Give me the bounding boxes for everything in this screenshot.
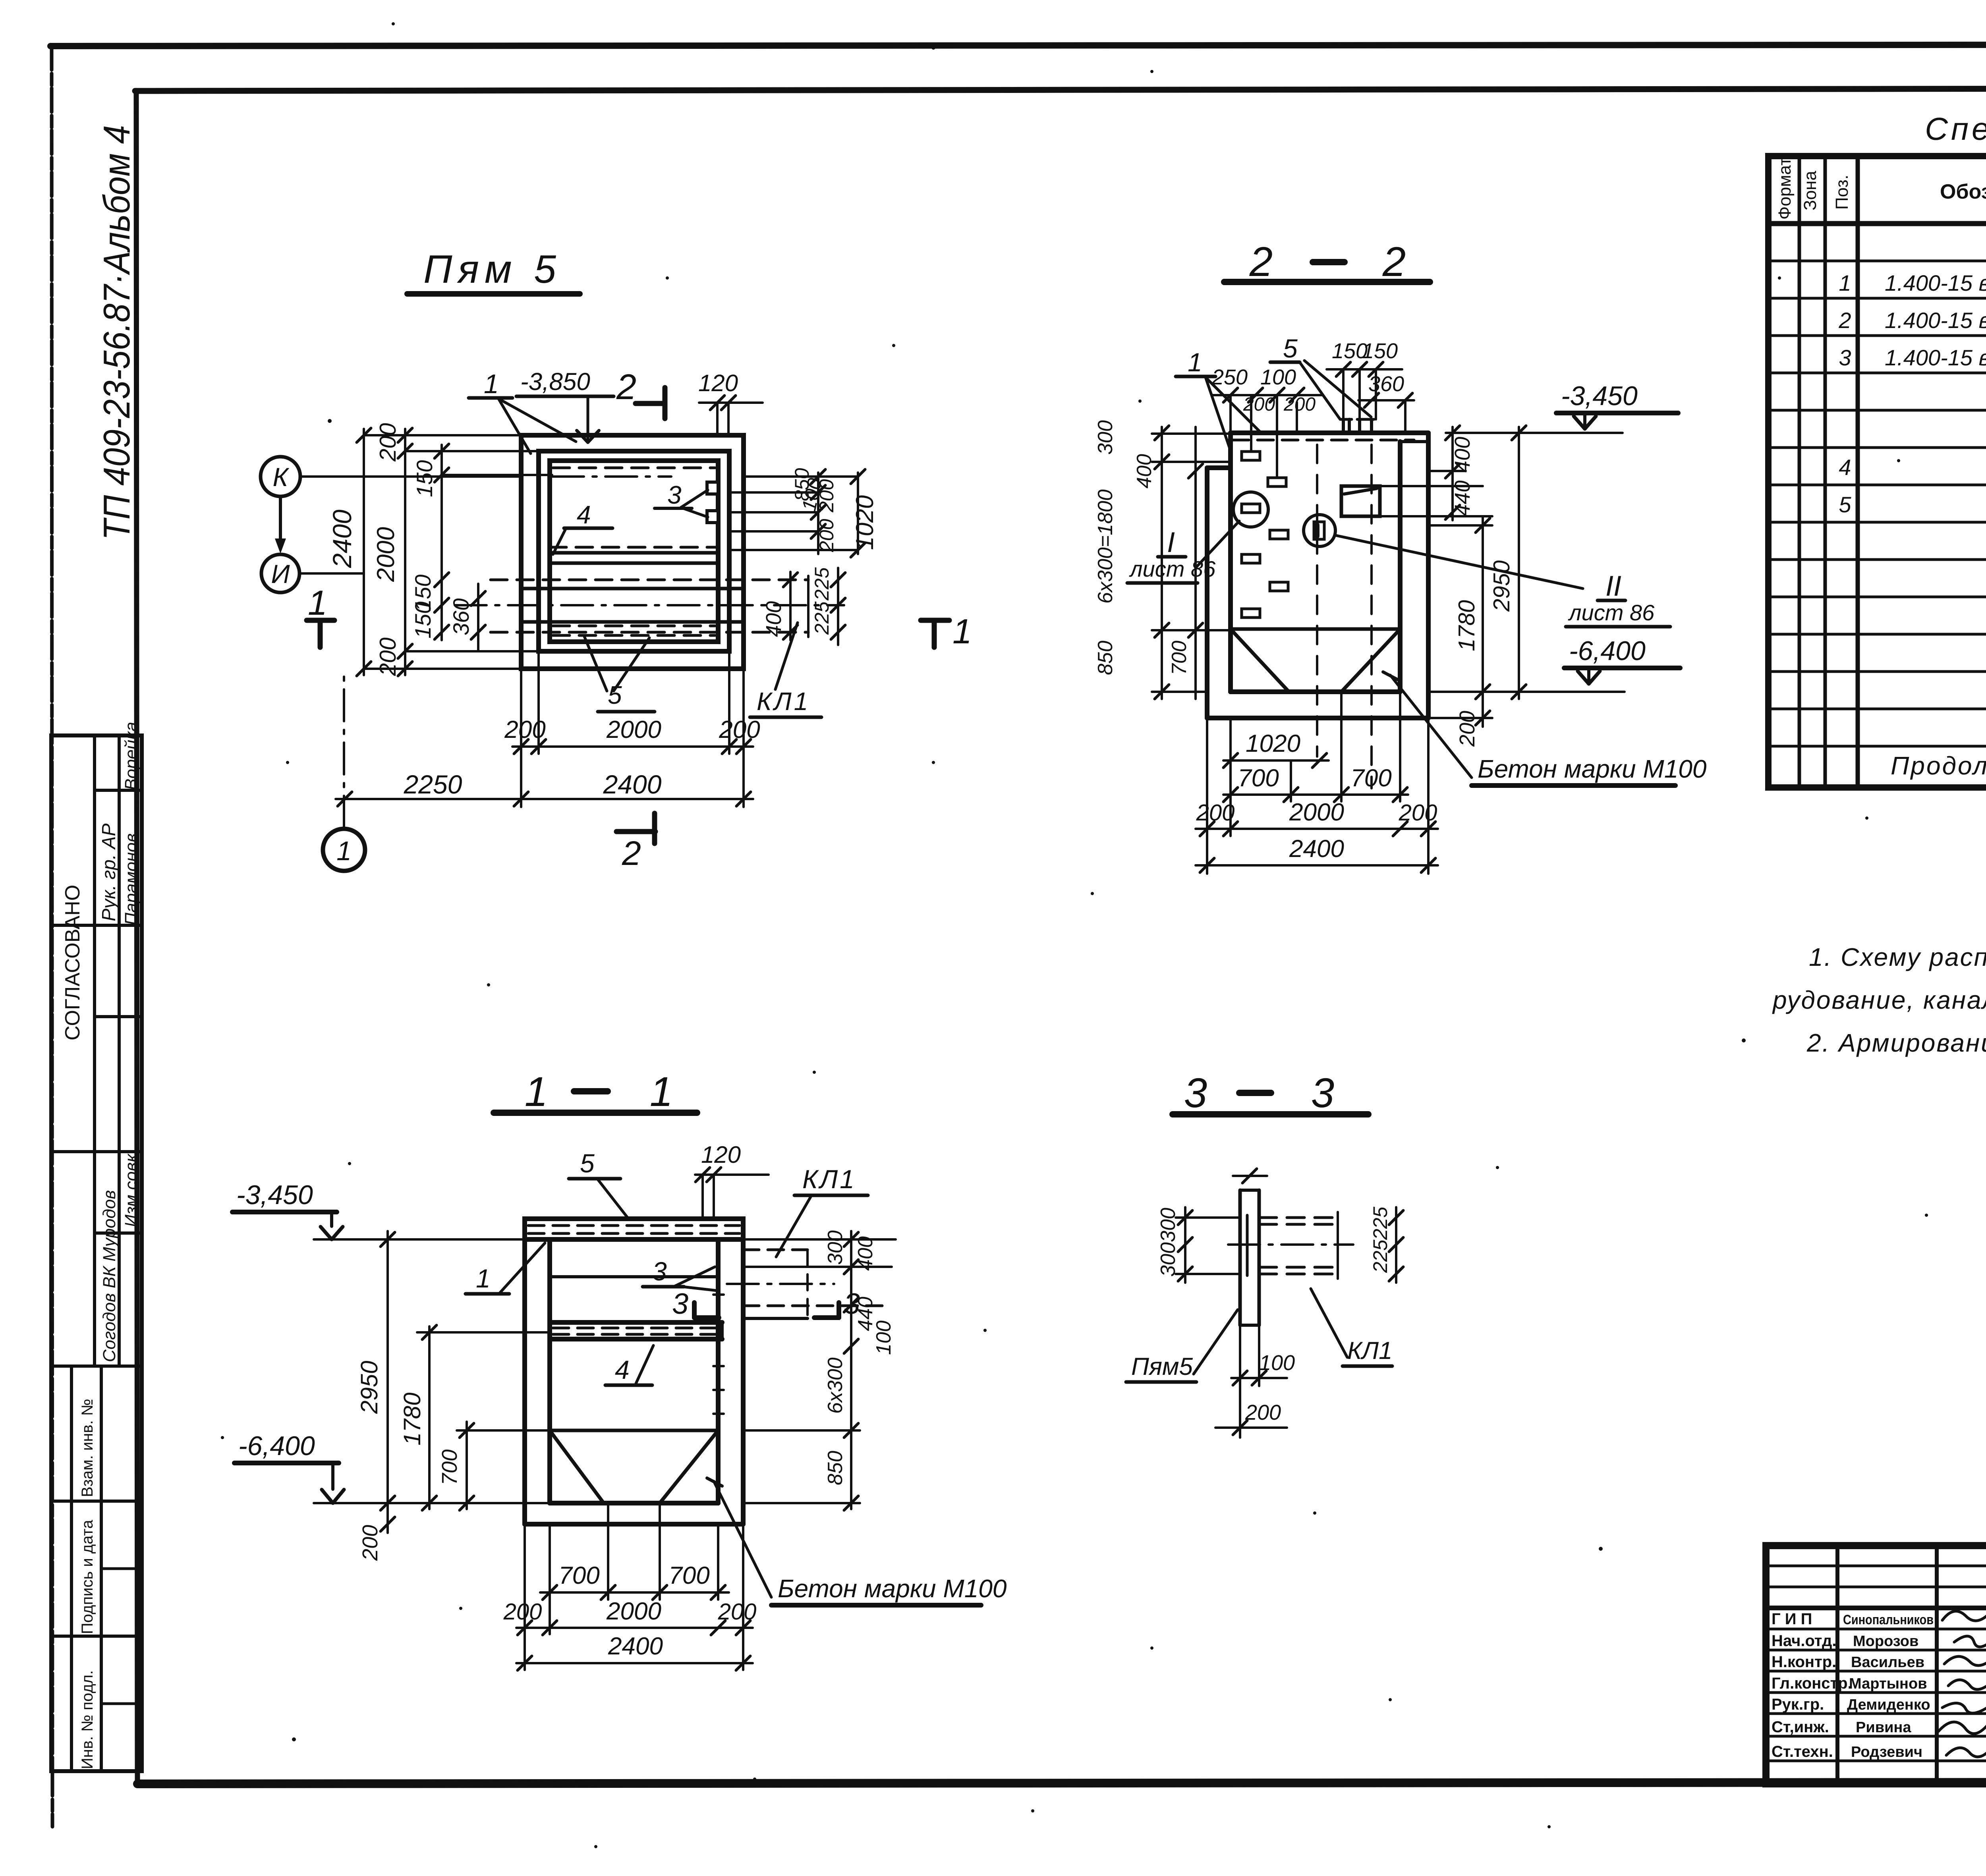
svg-text:2400: 2400 bbox=[327, 510, 357, 568]
bottom dims 700 700 bbox=[549, 1524, 551, 1634]
svg-text:3: 3 bbox=[1184, 1070, 1207, 1116]
svg-text:200: 200 bbox=[815, 519, 838, 552]
svg-text:2. Армирование приямка Пям 5: 2. Армирование приямка Пям 5 см. на лист… bbox=[1806, 1029, 1986, 1057]
svg-text:100: 100 bbox=[1260, 365, 1296, 389]
bottom dims 100 200 bbox=[1239, 1325, 1241, 1438]
svg-text:1: 1 bbox=[1188, 347, 1202, 377]
svg-text:200: 200 bbox=[504, 716, 545, 743]
svg-text:300: 300 bbox=[824, 1230, 847, 1265]
svg-text:Васильев: Васильев bbox=[1851, 1654, 1924, 1671]
svg-text:Пям5: Пям5 bbox=[1131, 1353, 1193, 1380]
svg-text:3: 3 bbox=[652, 1256, 667, 1286]
svg-text:2: 2 bbox=[1249, 239, 1273, 285]
svg-text:3: 3 bbox=[667, 481, 682, 509]
embedded plates zigzag bbox=[1242, 452, 1260, 460]
svg-text:СОГЛАСОВАНО: СОГЛАСОВАНО bbox=[61, 885, 84, 1040]
svg-text:400: 400 bbox=[854, 1236, 877, 1271]
svg-text:1: 1 bbox=[1839, 270, 1851, 295]
svg-text:1780: 1780 bbox=[1454, 600, 1480, 651]
right wall bbox=[741, 1239, 746, 1524]
svg-text:Родзевич: Родзевич bbox=[1851, 1744, 1922, 1760]
axis K circle bbox=[261, 457, 300, 496]
svg-text:225: 225 bbox=[1369, 1206, 1391, 1240]
svg-text:200: 200 bbox=[1245, 1401, 1281, 1424]
svg-text:120: 120 bbox=[701, 1141, 741, 1168]
svg-text:1: 1 bbox=[336, 836, 352, 866]
svg-text:440: 440 bbox=[1451, 481, 1474, 516]
bottom dim 2400 bbox=[516, 1662, 753, 1664]
svg-text:3: 3 bbox=[1311, 1070, 1334, 1116]
channel bottom solid bbox=[521, 620, 744, 624]
main horizontal lines bbox=[1766, 1606, 1986, 1610]
svg-text:700: 700 bbox=[1350, 764, 1391, 792]
dim ticks left bbox=[357, 428, 371, 442]
svg-text:Инв. № подл.: Инв. № подл. bbox=[79, 1670, 96, 1769]
svg-text:4: 4 bbox=[1839, 455, 1851, 480]
svg-text:-3,450: -3,450 bbox=[236, 1180, 313, 1210]
svg-text:Парамонов: Парамонов bbox=[122, 833, 141, 925]
sheet outer left border line bbox=[52, 46, 52, 1827]
svg-text:Ст.техн.: Ст.техн. bbox=[1772, 1743, 1833, 1760]
left table verticals bbox=[1835, 1546, 1839, 1784]
svg-text:I: I bbox=[1167, 527, 1175, 558]
svg-text:1.400-15 в.1 810: 1.400-15 в.1 810 bbox=[1885, 345, 1986, 370]
svg-text:2950: 2950 bbox=[356, 1361, 383, 1414]
svg-text:1: 1 bbox=[476, 1264, 491, 1293]
svg-text:2000: 2000 bbox=[372, 527, 400, 582]
left dim 2950/200 bbox=[386, 1231, 389, 1533]
svg-text:1: 1 bbox=[308, 583, 327, 622]
svg-text:850: 850 bbox=[824, 1451, 847, 1485]
right dims 300 400 440 100 bbox=[743, 1238, 896, 1241]
pit wall outer rect bbox=[539, 451, 729, 651]
PLAN VIEW PJAM5 bbox=[261, 247, 972, 872]
embedded plates item 3 bbox=[707, 482, 718, 494]
svg-text:Демиденко: Демиденко bbox=[1847, 1697, 1930, 1713]
svg-text:700: 700 bbox=[1168, 641, 1191, 675]
SECTION 1-1 bbox=[232, 1069, 1007, 1670]
svg-text:200: 200 bbox=[1399, 800, 1437, 826]
svg-text:700: 700 bbox=[438, 1449, 462, 1485]
row lines bbox=[1768, 260, 1986, 262]
svg-text:400: 400 bbox=[1451, 437, 1474, 473]
sheet outer top border line bbox=[50, 44, 1986, 46]
svg-text:Г И П: Г И П bbox=[1772, 1610, 1812, 1628]
top slab line bbox=[1231, 430, 1428, 435]
LEFT MARGIN bbox=[51, 125, 142, 1771]
bottom dim row 1 bbox=[512, 745, 753, 748]
svg-text:5: 5 bbox=[608, 681, 622, 709]
svg-text:360: 360 bbox=[448, 598, 473, 635]
svg-text:-3,450: -3,450 bbox=[1561, 381, 1638, 411]
svg-text:3: 3 bbox=[1839, 345, 1851, 370]
left inner wall bbox=[1228, 433, 1233, 692]
pit wall inner rect bbox=[550, 461, 718, 642]
cavity bottom bbox=[1231, 689, 1400, 694]
svg-text:Синопальников: Синопальников bbox=[1843, 1612, 1934, 1627]
svg-text:200: 200 bbox=[1283, 394, 1316, 415]
svg-text:6х300: 6х300 bbox=[824, 1357, 847, 1414]
svg-text:360: 360 bbox=[1368, 372, 1404, 396]
channel right end tick bbox=[807, 576, 809, 637]
axis circle 1 bottom bbox=[323, 829, 365, 871]
dim extension horizontals bbox=[364, 434, 521, 436]
svg-text:1780: 1780 bbox=[399, 1393, 425, 1446]
svg-text:1: 1 bbox=[525, 1069, 548, 1115]
svg-text:700: 700 bbox=[668, 1562, 709, 1589]
left outer wall bbox=[1205, 468, 1209, 718]
right inner wall bbox=[1398, 442, 1403, 692]
detail circle II with plate bbox=[1304, 515, 1335, 546]
right dim chain 400/440 bbox=[1451, 427, 1454, 520]
svg-text:лист 86: лист 86 bbox=[1568, 600, 1655, 625]
svg-text:1.400-15 в.1 120: 1.400-15 в.1 120 bbox=[1885, 308, 1986, 333]
svg-text:4: 4 bbox=[615, 1355, 630, 1384]
right dim 2950 bbox=[1518, 427, 1520, 699]
svg-text:150: 150 bbox=[412, 460, 437, 497]
svg-text:2: 2 bbox=[616, 367, 636, 407]
svg-text:5: 5 bbox=[1283, 334, 1298, 363]
SECTION 3-3 bbox=[1126, 1070, 1403, 1438]
svg-text:Рук. гр. АР: Рук. гр. АР bbox=[99, 824, 120, 921]
svg-text:5: 5 bbox=[1839, 492, 1851, 517]
svg-text:-6,400: -6,400 bbox=[238, 1431, 315, 1461]
inner dashed top line bbox=[553, 467, 715, 469]
svg-text:Продолжение см. на лис: Продолжение см. на листе 85 bbox=[1891, 751, 1986, 780]
svg-text:150: 150 bbox=[410, 602, 435, 639]
svg-text:Согодов ВК Муродов: Согодов ВК Муродов bbox=[100, 1190, 119, 1362]
svg-text:-3,850: -3,850 bbox=[520, 368, 590, 396]
column lines bbox=[1798, 156, 1801, 787]
svg-text:Взам. инв. №: Взам. инв. № bbox=[79, 1399, 96, 1497]
svg-text:Изм.совк.: Изм.совк. bbox=[122, 1149, 141, 1227]
axis I circle bbox=[261, 554, 299, 593]
svg-text:1020: 1020 bbox=[851, 495, 879, 550]
svg-text:Пям 5: Пям 5 bbox=[423, 247, 562, 291]
SECTION 2-2 bbox=[1094, 239, 1707, 874]
channel dashed bottom bbox=[491, 631, 808, 634]
svg-text:Подпись и дата: Подпись и дата bbox=[79, 1520, 96, 1634]
funnel bbox=[550, 1429, 718, 1432]
level line -3450 bbox=[314, 1238, 525, 1241]
svg-text:КЛ1: КЛ1 bbox=[1347, 1337, 1393, 1365]
svg-text:200: 200 bbox=[815, 479, 838, 513]
svg-text:6х300=1800: 6х300=1800 bbox=[1094, 489, 1117, 604]
svg-text:Гл.констр.: Гл.констр. bbox=[1772, 1675, 1852, 1692]
svg-text:Ст,инж.: Ст,инж. bbox=[1772, 1718, 1829, 1736]
svg-text:200: 200 bbox=[358, 1525, 382, 1561]
axis K line bbox=[300, 475, 521, 478]
left dim 700 bbox=[466, 1422, 468, 1509]
svg-text:700: 700 bbox=[558, 1562, 599, 1589]
svg-text:850: 850 bbox=[1094, 641, 1117, 675]
left wall bbox=[522, 1239, 527, 1524]
svg-text:3: 3 bbox=[844, 1287, 860, 1320]
NOTES bbox=[1772, 943, 1986, 1057]
svg-text:2400: 2400 bbox=[603, 770, 662, 799]
svg-text:400: 400 bbox=[762, 601, 786, 637]
left dim 1780 bbox=[428, 1326, 431, 1509]
TITLE BLOCK bbox=[1766, 1546, 1986, 1813]
inner drawing frame left line bbox=[136, 91, 137, 1784]
platform edge dashed bbox=[550, 546, 718, 549]
left dims 300 300 bbox=[1184, 1207, 1186, 1283]
svg-text:Формат: Формат bbox=[1775, 158, 1795, 220]
inner vertical dashed lines bbox=[1316, 445, 1318, 757]
svg-text:100: 100 bbox=[872, 1320, 895, 1355]
svg-text:100: 100 bbox=[1259, 1351, 1295, 1375]
channel dashed pairs bbox=[1259, 1216, 1338, 1219]
svg-text:2950: 2950 bbox=[1489, 560, 1515, 612]
svg-text:2400: 2400 bbox=[1289, 835, 1344, 863]
svg-text:2: 2 bbox=[1838, 308, 1851, 333]
svg-text:2: 2 bbox=[1382, 239, 1406, 285]
svg-text:3: 3 bbox=[672, 1287, 688, 1320]
bottom dims 200 2000 200 bbox=[524, 1524, 526, 1670]
top dims bbox=[1211, 394, 1323, 396]
inner drawing frame bottom line bbox=[137, 1782, 1986, 1784]
svg-text:120: 120 bbox=[698, 370, 738, 396]
left dim chain bbox=[1161, 427, 1163, 699]
svg-text:Спецификация к Пям 5: Спецификация к Пям 5 bbox=[1925, 111, 1986, 147]
svg-text:Мартынов: Мартынов bbox=[1849, 1675, 1927, 1692]
svg-text:2: 2 bbox=[622, 834, 641, 872]
floor bottom bbox=[1207, 716, 1428, 720]
svg-text:225: 225 bbox=[811, 601, 833, 635]
svg-text:Зона: Зона bbox=[1801, 171, 1820, 210]
funnel bbox=[1231, 627, 1400, 631]
right dims 225 225 bbox=[1395, 1207, 1397, 1283]
svg-text:200: 200 bbox=[503, 1599, 542, 1625]
svg-text:300: 300 bbox=[1157, 1208, 1180, 1242]
detail circle I bbox=[1233, 492, 1268, 527]
svg-text:КЛ1: КЛ1 bbox=[757, 687, 810, 716]
svg-text:1020: 1020 bbox=[1246, 730, 1300, 757]
channel KL1 dashed top bbox=[491, 579, 808, 581]
svg-text:2400: 2400 bbox=[608, 1633, 663, 1660]
window opening bbox=[1341, 486, 1380, 516]
svg-text:200: 200 bbox=[719, 716, 760, 743]
section mark 2 bottom bbox=[616, 829, 655, 834]
svg-text:Бетон марки М100: Бетон марки М100 bbox=[1478, 755, 1707, 783]
svg-text:Рук.гр.: Рук.гр. bbox=[1772, 1696, 1824, 1713]
top slab bbox=[525, 1219, 743, 1239]
svg-text:2000: 2000 bbox=[1289, 799, 1344, 826]
svg-text:400: 400 bbox=[1133, 454, 1156, 488]
floor bbox=[550, 1501, 718, 1505]
svg-text:200: 200 bbox=[1243, 394, 1275, 415]
stamp column vertical divider 2 bbox=[118, 735, 121, 1366]
right outer wall bbox=[1426, 433, 1431, 718]
svg-text:1.400-15 в.1 550-03: 1.400-15 в.1 550-03 bbox=[1885, 270, 1986, 295]
inner drawing frame top line bbox=[135, 88, 1986, 91]
svg-text:-6,400: -6,400 bbox=[1569, 636, 1646, 666]
svg-text:Бетон марки М100: Бетон марки М100 bbox=[778, 1574, 1007, 1603]
svg-text:Поз.: Поз. bbox=[1832, 175, 1852, 210]
svg-text:1: 1 bbox=[484, 369, 499, 399]
svg-text:Нач.отд.: Нач.отд. bbox=[1772, 1632, 1836, 1650]
svg-text:200: 200 bbox=[375, 423, 401, 462]
slab stubs item 5 bbox=[1342, 419, 1345, 433]
level line -6400 bbox=[314, 1502, 550, 1504]
platform edge lines bbox=[550, 551, 718, 555]
svg-text:1: 1 bbox=[650, 1069, 673, 1115]
svg-text:Морозов: Морозов bbox=[1853, 1633, 1918, 1650]
svg-text:Ворейка: Ворейка bbox=[122, 722, 141, 790]
right dim 1780 bbox=[1482, 516, 1484, 727]
centerline bbox=[1228, 1243, 1353, 1246]
stamp column outer box bbox=[51, 735, 142, 1771]
channel axis dash-dot bbox=[455, 604, 844, 606]
svg-text:ТП 409-23-56.87·Альбом 4: ТП 409-23-56.87·Альбом 4 bbox=[96, 125, 137, 540]
stamp column vertical divider 1 bbox=[93, 735, 96, 1366]
svg-text:1. Схему расположения фундам: 1. Схему расположения фундаментов под об… bbox=[1809, 943, 1986, 971]
channel dashed right bbox=[743, 1249, 808, 1251]
svg-text:КЛ1: КЛ1 bbox=[802, 1164, 856, 1194]
intermediate platform bbox=[550, 1320, 722, 1325]
svg-text:4: 4 bbox=[577, 500, 591, 529]
dim verticals left bbox=[363, 429, 365, 675]
svg-text:200: 200 bbox=[718, 1599, 757, 1625]
inner dashed bottom lines bbox=[553, 625, 715, 627]
window level lines bbox=[1380, 485, 1483, 487]
channel top solid bbox=[521, 587, 744, 591]
svg-text:Ривина: Ривина bbox=[1856, 1719, 1911, 1736]
svg-text:5: 5 bbox=[580, 1148, 595, 1178]
svg-text:225: 225 bbox=[1369, 1239, 1391, 1273]
svg-text:200: 200 bbox=[1196, 800, 1235, 826]
bottom dims bbox=[1223, 759, 1329, 762]
svg-text:200: 200 bbox=[1455, 711, 1479, 747]
svg-text:300: 300 bbox=[1094, 420, 1117, 455]
bottom dim row 2 bbox=[336, 798, 753, 800]
table outer border bbox=[1768, 156, 1986, 787]
svg-text:150: 150 bbox=[1362, 339, 1398, 363]
svg-text:200: 200 bbox=[375, 637, 401, 676]
signatures squiggles bbox=[1942, 1608, 1986, 1624]
SPECIFICATION TABLE bbox=[1768, 111, 1986, 787]
channel width dims right bbox=[789, 572, 792, 640]
svg-text:300: 300 bbox=[1157, 1242, 1180, 1277]
top tick bbox=[1242, 1169, 1257, 1183]
upper beam line bbox=[550, 1275, 718, 1278]
wall member bbox=[1238, 1190, 1242, 1325]
svg-text:1: 1 bbox=[952, 612, 972, 651]
section mark 1 right bbox=[921, 618, 949, 623]
header bottom line bbox=[1768, 221, 1986, 226]
svg-text:2250: 2250 bbox=[404, 770, 462, 799]
svg-text:2000: 2000 bbox=[606, 1598, 661, 1625]
svg-text:Н.контр.: Н.контр. bbox=[1772, 1653, 1836, 1671]
right dims 6x300 850 bbox=[850, 1362, 852, 1509]
svg-text:II: II bbox=[1605, 570, 1621, 602]
arrow K to I bbox=[279, 497, 282, 548]
pit outer square bbox=[521, 435, 744, 669]
left table rows bbox=[1766, 1565, 1986, 1567]
svg-text:К: К bbox=[273, 462, 290, 492]
svg-text:2000: 2000 bbox=[606, 716, 661, 743]
dims 150 150 360 bbox=[1327, 368, 1402, 371]
svg-text:рудование, каналов, приямков: рудование, каналов, приямков см. на лист… bbox=[1772, 986, 1986, 1014]
axis I line bbox=[299, 572, 364, 575]
svg-text:Обозначение: Обозначение bbox=[1940, 180, 1986, 203]
svg-text:И: И bbox=[271, 559, 290, 589]
label II list 86 with long leader bbox=[1335, 535, 1583, 589]
svg-text:225: 225 bbox=[811, 567, 833, 601]
svg-text:700: 700 bbox=[1238, 764, 1279, 792]
right side dims of plates bbox=[744, 475, 858, 478]
stamp row lines bbox=[95, 789, 142, 792]
ladder rung marks 6x300 bbox=[713, 1293, 724, 1296]
